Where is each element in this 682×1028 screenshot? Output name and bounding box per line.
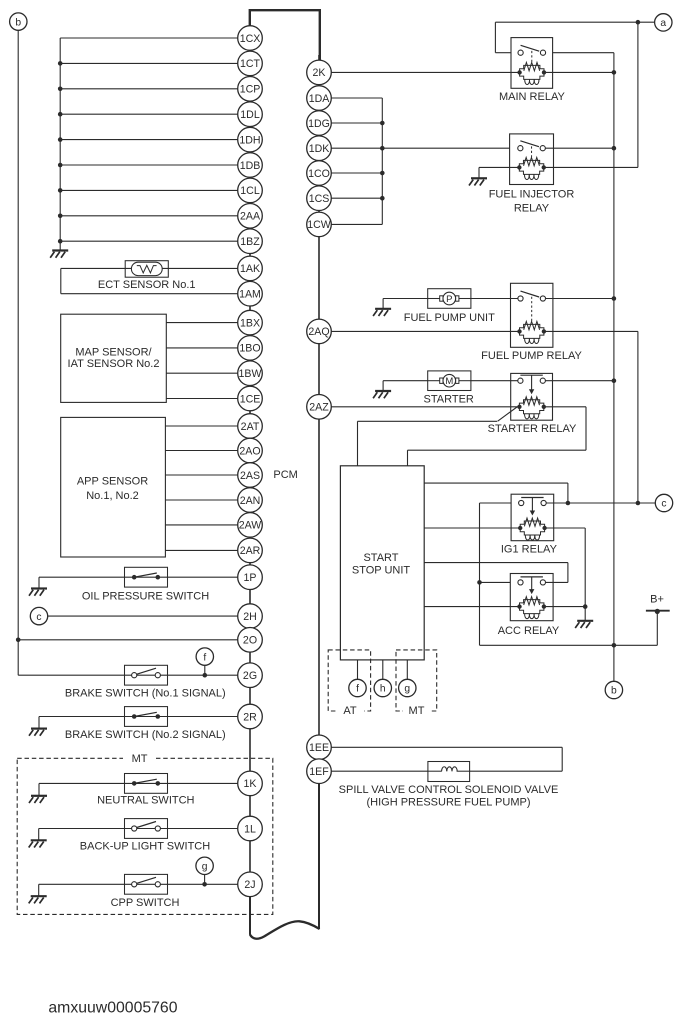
svg-text:2AZ: 2AZ <box>309 402 329 414</box>
svg-text:ACC RELAY: ACC RELAY <box>498 625 560 637</box>
svg-text:2O: 2O <box>243 635 257 647</box>
svg-text:1BX: 1BX <box>240 317 260 329</box>
svg-text:2AS: 2AS <box>240 470 260 482</box>
svg-text:1CX: 1CX <box>240 33 261 45</box>
svg-text:M: M <box>445 376 453 387</box>
svg-text:1AM: 1AM <box>239 289 261 301</box>
svg-text:f: f <box>356 684 359 695</box>
svg-text:2AA: 2AA <box>240 211 261 223</box>
svg-text:2R: 2R <box>243 711 257 723</box>
svg-text:STARTER RELAY: STARTER RELAY <box>488 423 577 435</box>
svg-text:MAIN RELAY: MAIN RELAY <box>499 91 565 103</box>
svg-text:h: h <box>380 684 386 695</box>
svg-text:1DB: 1DB <box>240 160 261 172</box>
svg-text:FUEL PUMP RELAY: FUEL PUMP RELAY <box>481 350 582 362</box>
svg-text:2AQ: 2AQ <box>308 326 329 338</box>
svg-text:BRAKE SWITCH (No.1 SIGNAL): BRAKE SWITCH (No.1 SIGNAL) <box>65 687 226 699</box>
svg-text:c: c <box>661 499 666 510</box>
svg-text:1L: 1L <box>244 823 256 835</box>
svg-text:g: g <box>202 862 208 873</box>
svg-text:1CE: 1CE <box>240 393 261 405</box>
svg-text:1CP: 1CP <box>240 84 261 96</box>
svg-text:MT: MT <box>132 753 148 765</box>
svg-text:2AO: 2AO <box>239 445 260 457</box>
svg-text:(HIGH PRESSURE FUEL PUMP): (HIGH PRESSURE FUEL PUMP) <box>366 797 530 809</box>
svg-text:P: P <box>446 294 452 305</box>
svg-text:2G: 2G <box>243 670 257 682</box>
svg-text:c: c <box>36 612 41 623</box>
svg-text:APP SENSOR: APP SENSOR <box>77 475 148 487</box>
svg-text:B+: B+ <box>650 594 664 606</box>
svg-text:FUEL INJECTOR: FUEL INJECTOR <box>489 188 575 200</box>
svg-text:1CL: 1CL <box>240 185 260 197</box>
svg-text:2H: 2H <box>243 611 257 623</box>
svg-text:IAT SENSOR No.2: IAT SENSOR No.2 <box>68 358 160 370</box>
svg-text:1CO: 1CO <box>308 168 330 180</box>
svg-text:START: START <box>363 552 398 564</box>
svg-text:1CS: 1CS <box>309 193 330 205</box>
svg-text:CPP SWITCH: CPP SWITCH <box>111 897 180 909</box>
svg-text:2AN: 2AN <box>240 495 261 507</box>
svg-text:g: g <box>404 684 410 695</box>
svg-text:2AR: 2AR <box>240 545 261 557</box>
svg-text:1CW: 1CW <box>307 219 331 231</box>
svg-text:OIL PRESSURE SWITCH: OIL PRESSURE SWITCH <box>82 591 209 603</box>
svg-text:b: b <box>611 686 617 697</box>
svg-text:STARTER: STARTER <box>424 394 474 406</box>
svg-text:f: f <box>203 652 206 663</box>
svg-text:amxuuw00005760: amxuuw00005760 <box>48 1000 177 1017</box>
svg-text:2J: 2J <box>244 879 255 891</box>
svg-text:1CT: 1CT <box>240 58 261 70</box>
svg-text:1BO: 1BO <box>239 343 260 355</box>
svg-text:1BW: 1BW <box>239 368 262 380</box>
svg-text:PCM: PCM <box>273 469 297 481</box>
svg-text:SPILL VALVE CONTROL SOLENOID V: SPILL VALVE CONTROL SOLENOID VALVE <box>339 784 559 796</box>
svg-text:b: b <box>15 17 21 28</box>
svg-text:RELAY: RELAY <box>514 202 550 214</box>
svg-text:1P: 1P <box>244 572 257 584</box>
svg-text:a: a <box>660 18 666 29</box>
svg-text:1DG: 1DG <box>308 118 330 130</box>
svg-text:AT: AT <box>343 705 357 717</box>
svg-text:IG1 RELAY: IG1 RELAY <box>501 544 558 556</box>
svg-text:1DK: 1DK <box>309 143 330 155</box>
svg-text:2AW: 2AW <box>239 520 262 532</box>
svg-text:BRAKE SWITCH (No.2 SIGNAL): BRAKE SWITCH (No.2 SIGNAL) <box>65 729 226 741</box>
svg-text:MAP SENSOR/: MAP SENSOR/ <box>75 346 152 358</box>
svg-text:MT: MT <box>409 705 425 717</box>
svg-text:FUEL PUMP UNIT: FUEL PUMP UNIT <box>404 312 495 324</box>
svg-text:1DL: 1DL <box>240 109 260 121</box>
svg-text:ECT SENSOR No.1: ECT SENSOR No.1 <box>98 279 196 291</box>
svg-text:1DH: 1DH <box>239 134 260 146</box>
svg-text:1EE: 1EE <box>309 742 329 754</box>
svg-text:2AT: 2AT <box>241 421 260 433</box>
svg-text:No.1, No.2: No.1, No.2 <box>86 490 139 502</box>
svg-text:1AK: 1AK <box>240 263 260 275</box>
svg-text:1K: 1K <box>244 778 257 790</box>
svg-text:1EF: 1EF <box>309 766 329 778</box>
svg-text:1DA: 1DA <box>309 93 331 105</box>
svg-text:NEUTRAL SWITCH: NEUTRAL SWITCH <box>97 794 194 806</box>
svg-text:STOP UNIT: STOP UNIT <box>352 565 411 577</box>
svg-text:2K: 2K <box>313 67 326 79</box>
svg-text:BACK-UP LIGHT SWITCH: BACK-UP LIGHT SWITCH <box>80 841 210 853</box>
svg-text:1BZ: 1BZ <box>240 236 260 248</box>
